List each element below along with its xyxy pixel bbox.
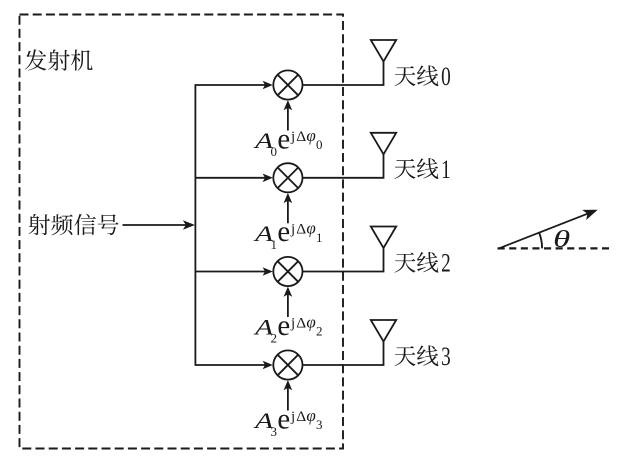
svg-text:φ: φ — [306, 126, 315, 145]
beam direction arrow — [498, 212, 592, 249]
svg-text:0: 0 — [271, 144, 278, 159]
transmitter dashed box — [20, 15, 344, 449]
phase control arrow into mixer M3 — [287, 386, 289, 411]
svg-text:1: 1 — [441, 154, 451, 184]
label 天线3 (antenna 3) — [394, 346, 415, 366]
svg-text:1: 1 — [316, 230, 323, 245]
svg-text:φ: φ — [306, 219, 315, 238]
arrowhead: into mixer M0 — [263, 81, 273, 90]
svg-text:1: 1 — [271, 237, 278, 252]
wire: distribution bus — [194, 85, 196, 365]
label 天线2 (antenna 2) — [394, 253, 415, 273]
mixer (multiplier) M1 — [273, 163, 302, 192]
svg-text:2: 2 — [441, 248, 451, 278]
wire: bus to mixer M0 — [195, 84, 267, 86]
svg-text:e: e — [277, 215, 290, 248]
label 天线1 (antenna 1) — [394, 159, 415, 179]
svg-text:0: 0 — [441, 61, 451, 91]
label 射频信号 (RF signal input) — [28, 214, 50, 235]
svg-text:θ: θ — [553, 225, 570, 253]
antenna 2 symbol — [371, 227, 396, 249]
svg-text:Δ: Δ — [296, 315, 306, 331]
svg-text:3: 3 — [316, 417, 323, 432]
mixer (multiplier) M3 — [273, 350, 302, 379]
label 发射机 (transmitter) — [25, 49, 46, 70]
antenna 1 symbol — [371, 133, 396, 155]
mixer (multiplier) M0 — [273, 70, 302, 99]
beam axis dashed baseline — [498, 247, 609, 249]
label 天线0 (antenna 0) — [394, 66, 415, 86]
phase control arrow into mixer M0 — [287, 106, 289, 131]
wire: mixer M0 to antenna 0 — [303, 62, 384, 86]
arrowhead: into mixer M3 — [263, 361, 273, 370]
svg-text:j: j — [290, 129, 295, 145]
svg-text:2: 2 — [316, 324, 323, 339]
phase control arrow into mixer M2 — [287, 292, 289, 317]
label θ (beam steering angle) — [553, 225, 570, 253]
wire: bus to mixer M3 — [195, 364, 267, 366]
antenna 0 symbol — [371, 40, 396, 62]
svg-text:e: e — [277, 122, 290, 155]
mixer (multiplier) M2 — [273, 257, 302, 286]
svg-text:j: j — [290, 315, 295, 331]
svg-text:j: j — [290, 409, 295, 425]
svg-text:2: 2 — [271, 331, 278, 346]
arrowhead: into mixer M1 — [263, 174, 273, 183]
svg-text:e: e — [277, 402, 290, 435]
svg-text:3: 3 — [271, 424, 278, 439]
svg-text:Δ: Δ — [296, 222, 306, 238]
wire: bus to mixer M2 — [195, 271, 267, 273]
svg-text:j: j — [290, 222, 295, 238]
svg-text:3: 3 — [441, 341, 451, 371]
arrowhead: into mixer M2 — [263, 267, 273, 276]
svg-text:0: 0 — [316, 137, 323, 152]
svg-text:Δ: Δ — [296, 409, 306, 425]
wire: mixer M1 to antenna 1 — [303, 154, 384, 178]
angle arc for theta — [539, 232, 542, 248]
wire: bus to mixer M1 — [195, 177, 267, 179]
wire: mixer M3 to antenna 3 — [303, 342, 384, 366]
svg-text:Δ: Δ — [296, 129, 306, 145]
wire: mixer M2 to antenna 2 — [303, 248, 384, 272]
arrowhead: RF input into bus — [183, 220, 195, 229]
svg-text:φ: φ — [306, 312, 315, 331]
antenna 3 symbol — [371, 320, 396, 342]
svg-text:e: e — [277, 309, 290, 342]
svg-text:φ: φ — [306, 406, 315, 425]
phase control arrow into mixer M1 — [287, 198, 289, 223]
wire: RF input — [123, 224, 189, 226]
